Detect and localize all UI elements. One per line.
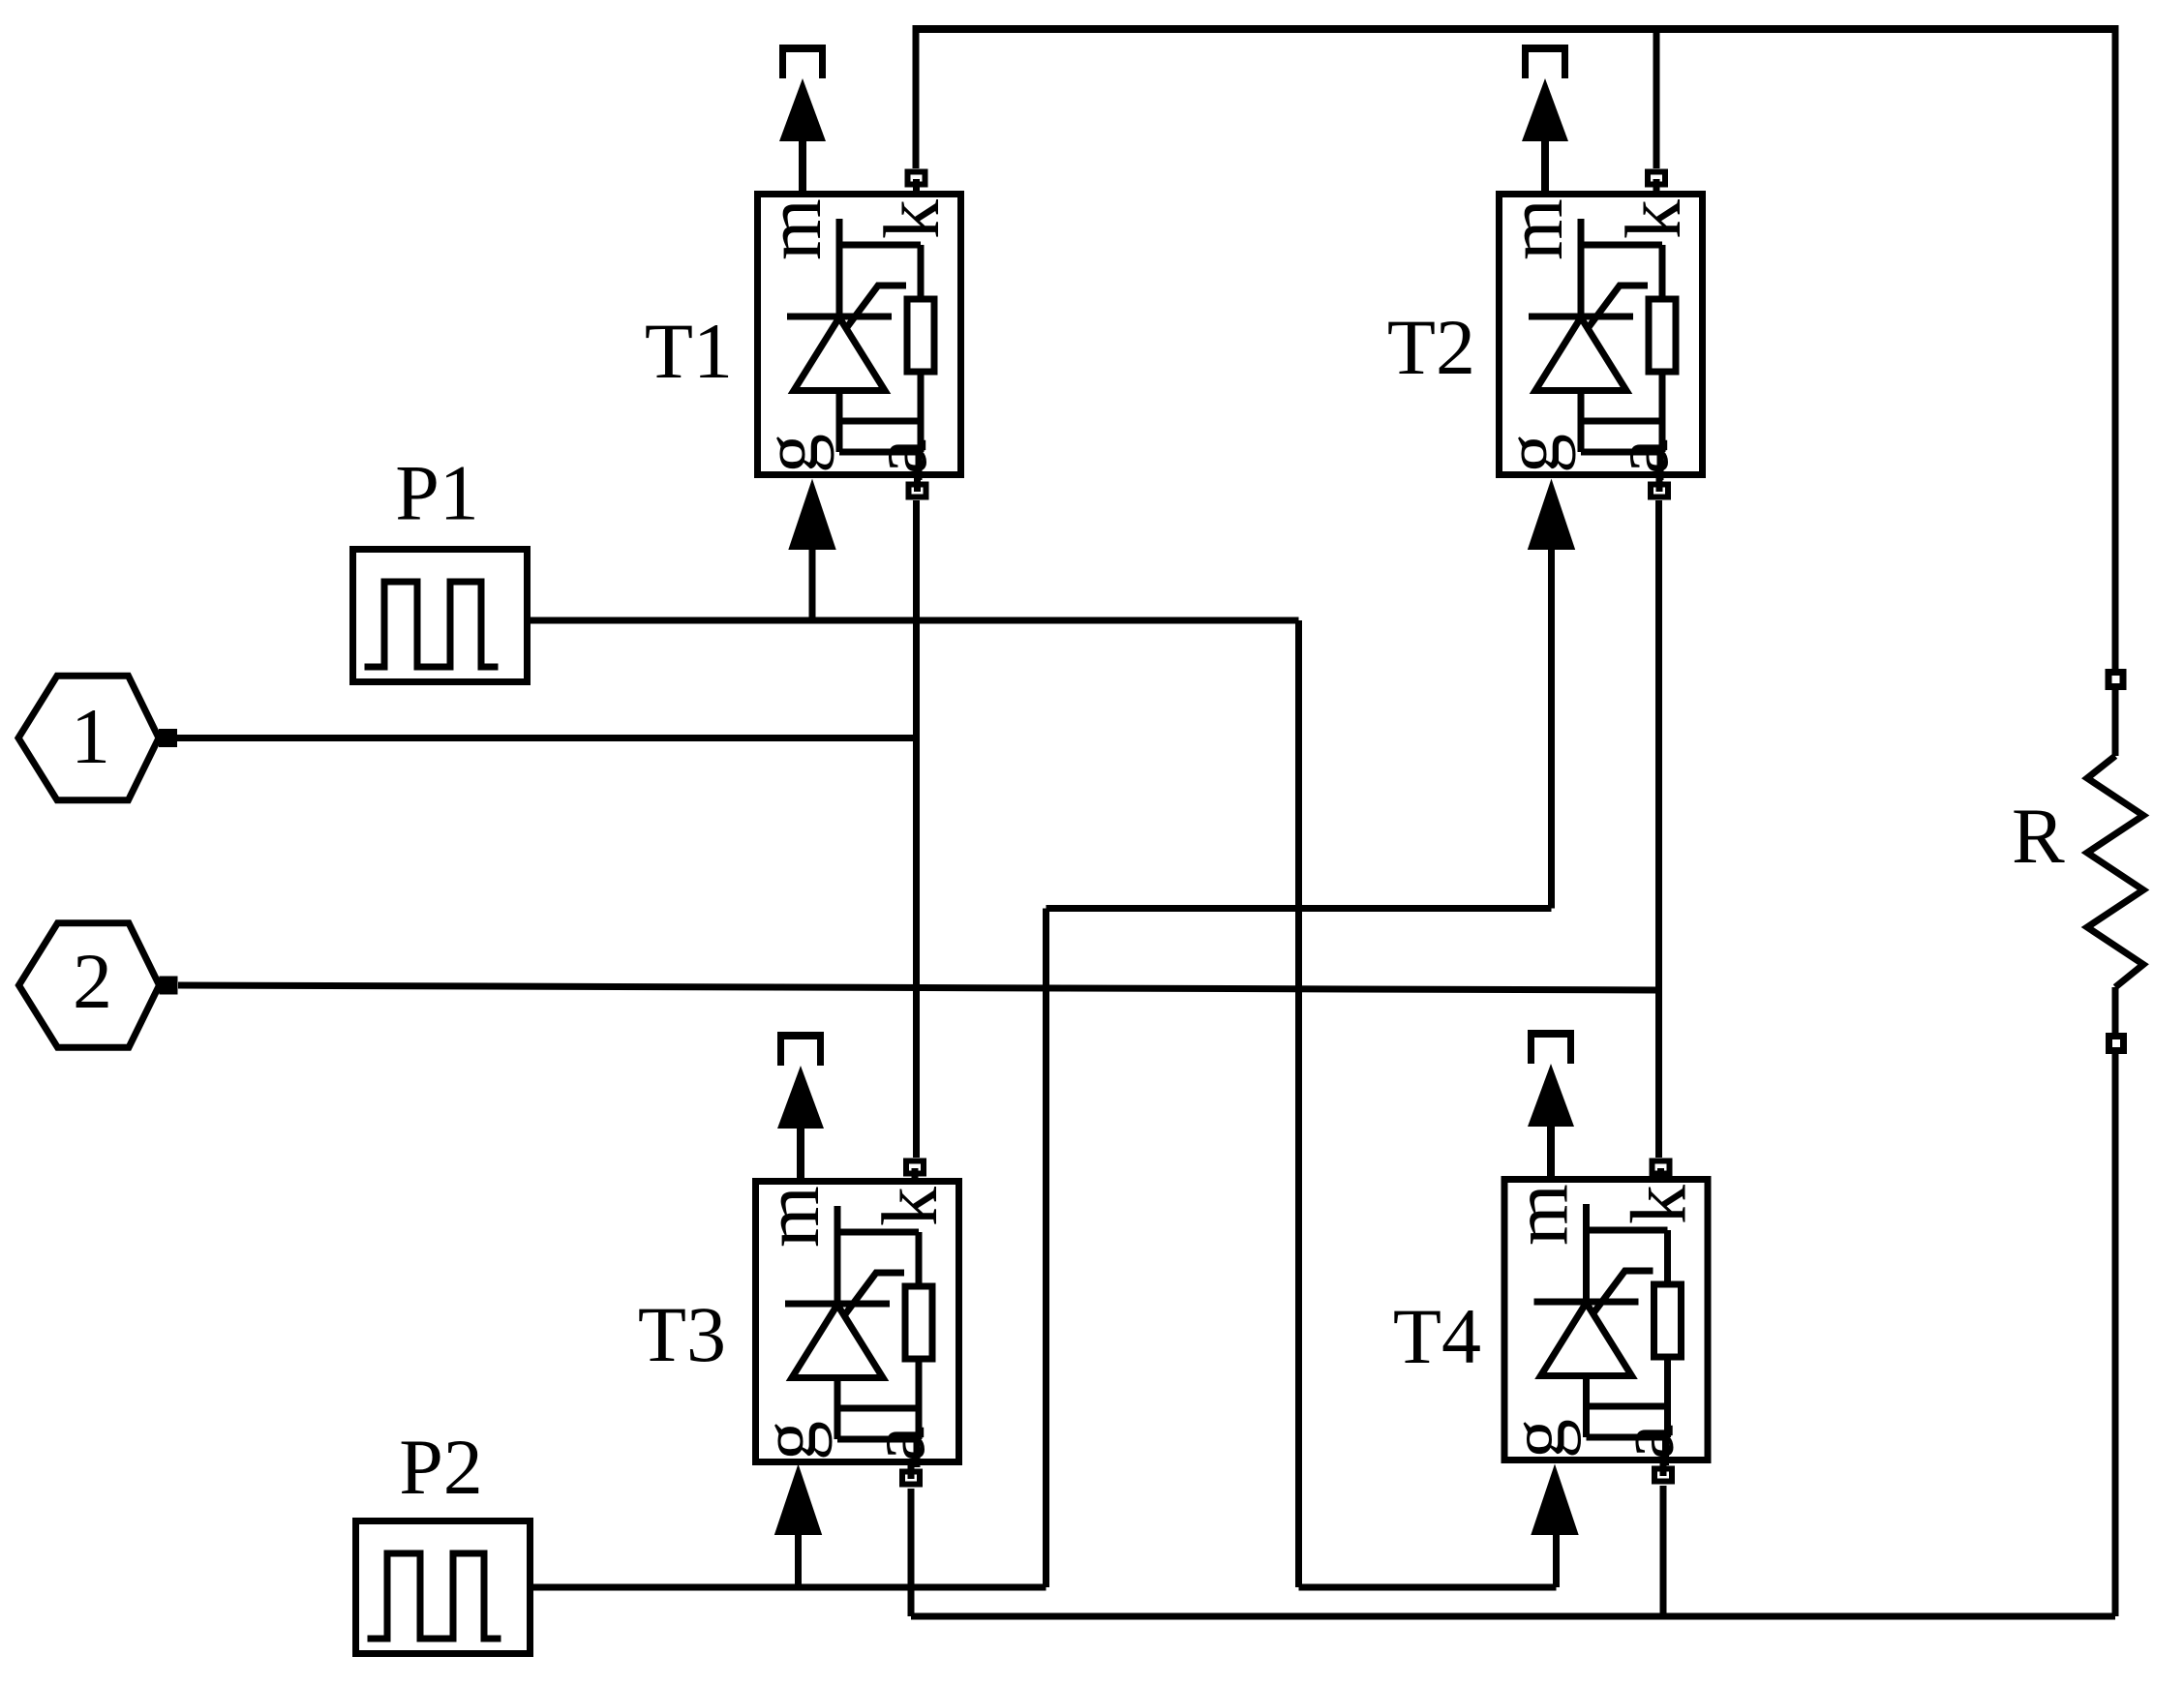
svg-text:P2: P2: [399, 1423, 483, 1511]
svg-text:T3: T3: [638, 1290, 726, 1378]
svg-text:T1: T1: [645, 307, 733, 395]
svg-text:T4: T4: [1393, 1292, 1481, 1380]
svg-text:P1: P1: [395, 449, 479, 537]
svg-text:T2: T2: [1387, 303, 1475, 391]
svg-text:1: 1: [71, 692, 110, 780]
svg-text:R: R: [2012, 792, 2065, 880]
svg-text:2: 2: [73, 937, 112, 1025]
